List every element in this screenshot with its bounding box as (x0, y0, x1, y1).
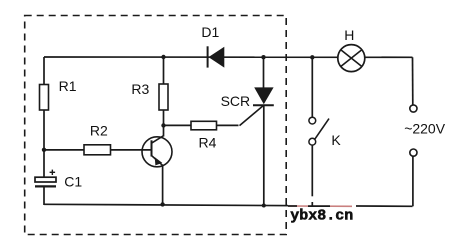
node R2 left junction (42, 148, 46, 152)
svg-text:H: H (344, 27, 354, 43)
svg-text:R1: R1 (59, 78, 77, 94)
wire R3 collector rail (163, 57, 165, 137)
wire K switch upper lead (311, 57, 313, 117)
watermark background patch (288, 196, 356, 221)
thyristor SCR (253, 87, 274, 105)
capacitor C1 (35, 177, 56, 186)
wire SCR cathode rail (263, 105, 265, 206)
resistor R1 (40, 85, 49, 111)
wire segment over watermark mid (308, 205, 330, 207)
wire bottom horizontal rail (44, 204, 413, 206)
wire SCR gate lead (240, 106, 263, 126)
polarity plus mark (50, 170, 56, 175)
wire top horizontal rail (44, 56, 413, 58)
node SCR top junction (261, 55, 265, 59)
wire base row from left rail to transistor (44, 149, 152, 151)
svg-text:SCR: SCR (221, 93, 251, 109)
node R3 top junction (161, 55, 165, 59)
svg-text:R3: R3 (131, 81, 149, 97)
svg-text:~220V: ~220V (404, 121, 446, 137)
transistor Q1 (142, 136, 172, 167)
wire K lower lead stub (311, 202, 313, 207)
node R4 left junction (161, 123, 165, 127)
terminal upper (410, 105, 417, 112)
svg-text:R4: R4 (199, 135, 217, 151)
wire K switch lower lead (311, 146, 313, 207)
wire emitter down lead (162, 166, 164, 205)
svg-text:D1: D1 (201, 24, 219, 40)
svg-text:ybx8.cn: ybx8.cn (290, 208, 353, 225)
node K top junction (310, 55, 314, 59)
resistor R3 (159, 84, 168, 110)
wire R4 lead row (164, 124, 239, 126)
resistor R4 (191, 121, 217, 130)
wire right rail lower (412, 156, 414, 206)
svg-text:C1: C1 (64, 174, 82, 190)
resistor R2 (84, 145, 111, 155)
svg-text:R2: R2 (90, 123, 108, 139)
dashed enclosure box (25, 16, 287, 235)
node SCR bottom junction (262, 204, 266, 208)
terminal lower (410, 149, 417, 156)
wire left rail below C1 (43, 186, 45, 205)
lamp H (338, 45, 365, 72)
switch K (309, 117, 329, 145)
wire right rail upper (412, 57, 414, 105)
svg-text:K: K (331, 132, 341, 148)
wire segment over watermark left (288, 205, 297, 207)
wire left rail upper through R1 (43, 57, 45, 178)
diode D1 (208, 46, 225, 67)
wire SCR anode lead (263, 57, 265, 88)
node emitter bottom junction (160, 202, 164, 206)
